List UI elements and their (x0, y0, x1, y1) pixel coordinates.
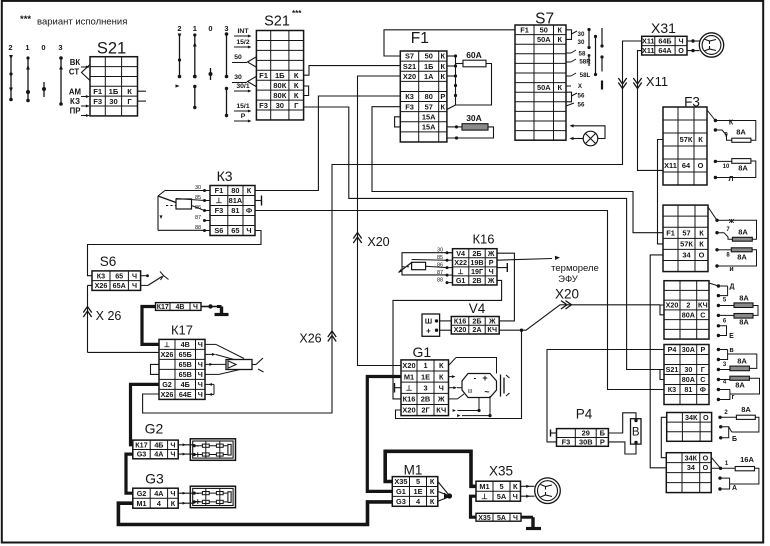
svg-text:К: К (699, 240, 704, 249)
relay K17 table (159, 339, 205, 399)
svg-text:Ч: Ч (170, 440, 175, 449)
position line B-3 (226, 33, 228, 77)
svg-text:К: К (171, 499, 176, 508)
lamp wires to S7 (571, 138, 583, 140)
svg-text:X11: X11 (646, 74, 668, 89)
svg-text:F1: F1 (666, 228, 675, 237)
svg-text:2: 2 (686, 301, 690, 310)
svg-text:4Б: 4Б (154, 440, 163, 449)
svg-text:S21: S21 (97, 39, 126, 57)
fuse 30A loop wire (447, 127, 494, 138)
F3 T3 left bracket rows 3-4 (660, 305, 664, 315)
svg-text:К: К (557, 35, 562, 44)
svg-text:G3: G3 (145, 471, 164, 487)
svg-text:ПР: ПР (70, 107, 81, 116)
svg-text:8А: 8А (735, 381, 745, 390)
svg-text:30А: 30А (466, 113, 482, 123)
svg-text:1Б: 1Б (424, 62, 434, 71)
S7 right terminal 30 30 (566, 30, 572, 40)
svg-text:F1: F1 (259, 71, 269, 80)
svg-text:81: 81 (684, 385, 692, 394)
fuse box F3 table T4 (664, 345, 709, 405)
svg-text:60А: 60А (466, 50, 482, 60)
F3 T1 fuse 10 8A (714, 160, 717, 163)
svg-text:К3: К3 (405, 92, 414, 101)
svg-text:X26: X26 (161, 390, 174, 399)
svg-text:О: О (698, 161, 704, 170)
svg-text:Ч: Ч (513, 515, 518, 522)
svg-text:М1: М1 (404, 372, 414, 381)
wire F1 57 to fusebox F3 (T2) (372, 107, 663, 233)
svg-text:Ч: Ч (170, 489, 175, 498)
svg-text:вариант исполнения: вариант исполнения (37, 17, 127, 28)
battery G3 wires (178, 492, 194, 494)
wire K3 65 to switch S6 (88, 231, 262, 276)
svg-text:К: К (294, 91, 299, 100)
svg-text:К: К (430, 487, 435, 496)
svg-text:G2: G2 (137, 489, 147, 498)
svg-text:INT: INT (238, 28, 250, 35)
svg-text:8А: 8А (738, 164, 748, 173)
wire 34 link T2 to T6 (650, 255, 666, 468)
fuse 60A (456, 63, 464, 65)
svg-text:⊥: ⊥ (406, 383, 412, 392)
svg-text:О: О (699, 251, 705, 260)
relay K16 table (453, 249, 498, 285)
svg-text:5А: 5А (497, 492, 507, 501)
svg-text:Ж: Ж (487, 276, 495, 285)
svg-text:X20: X20 (454, 325, 467, 334)
svg-text:и: и (729, 266, 733, 273)
svg-text:К16: К16 (403, 395, 416, 404)
svg-text:4В: 4В (181, 340, 190, 349)
svg-text:1Б: 1Б (109, 87, 119, 96)
svg-text:15А: 15А (422, 112, 436, 121)
svg-text:64: 64 (682, 161, 691, 170)
connector X20 chevron right (561, 301, 572, 309)
wire S21*** 1B to F1 (304, 66, 401, 76)
svg-text:К3: К3 (97, 271, 105, 280)
S21*** 50 chevron (248, 57, 257, 67)
svg-text:1: 1 (25, 43, 29, 52)
thick wire K17 G2 4B down to G2 (131, 384, 160, 444)
svg-text:Ж: Ж (487, 249, 495, 258)
svg-text:М1: М1 (404, 463, 423, 478)
thick wire ground lead to K17 (142, 307, 159, 345)
svg-text:16А: 16А (740, 455, 754, 464)
svg-text:F3: F3 (405, 102, 414, 111)
svg-text:57К: 57К (680, 240, 693, 249)
svg-text:30: 30 (109, 97, 117, 106)
svg-text:X35: X35 (478, 515, 491, 522)
svg-text:Р: Р (700, 345, 705, 354)
F3 T1 fuse 9 8A (714, 128, 717, 131)
svg-text:S7: S7 (405, 52, 414, 61)
svg-text:8А: 8А (736, 128, 746, 137)
switch S6 table (92, 271, 141, 291)
position line B-2 (179, 36, 181, 77)
S6 toggle contact (141, 275, 148, 277)
svg-text:F1: F1 (215, 186, 224, 195)
fuse box F1 table (400, 51, 447, 142)
svg-text:G1: G1 (413, 344, 432, 360)
svg-text:К: К (294, 71, 299, 80)
svg-text:30: 30 (276, 101, 284, 110)
svg-text:⊥: ⊥ (216, 196, 222, 205)
position line A-2 (10, 58, 12, 100)
svg-text:Г: Г (294, 101, 299, 110)
svg-text:К16: К16 (454, 316, 466, 325)
svg-text:X26: X26 (95, 281, 108, 290)
svg-text:Ч: Ч (198, 380, 203, 389)
svg-text:65А: 65А (113, 281, 126, 290)
svg-text:2Г: 2Г (421, 406, 430, 415)
svg-text:О: О (703, 463, 709, 472)
svg-text:⊥: ⊥ (481, 492, 487, 501)
svg-text:Ж: Ж (488, 316, 496, 325)
svg-text:ж: ж (728, 218, 735, 225)
svg-text:Р: Р (600, 438, 605, 447)
fuse 30A (447, 126, 462, 128)
svg-text:19Г: 19Г (471, 267, 483, 276)
wire X31 64B down through connector X11 (to K17 64E loop) (143, 41, 642, 413)
starter M1 table (392, 477, 438, 507)
svg-text:4В: 4В (176, 304, 185, 311)
svg-text:Ж: Ж (437, 395, 445, 404)
svg-text:термореле: термореле (551, 263, 599, 274)
svg-text:+: + (482, 373, 487, 383)
svg-text:4: 4 (157, 499, 161, 508)
svg-text:2В: 2В (421, 395, 430, 404)
svg-text:15/1: 15/1 (236, 103, 249, 110)
F3 T1 right cluster: terminal K (707, 110, 715, 121)
svg-text:Ч: Ч (198, 370, 203, 379)
svg-text:34К: 34К (685, 413, 698, 422)
glow plug box Sh + (422, 314, 440, 336)
ground symbol at X35 lead (521, 516, 533, 519)
svg-text:2Б: 2Б (472, 316, 481, 325)
svg-text:КЧ: КЧ (487, 325, 497, 334)
svg-text:Г: Г (701, 365, 705, 374)
svg-text:К3: К3 (217, 168, 233, 184)
svg-text:в: в (729, 347, 734, 354)
svg-text:X20: X20 (402, 361, 415, 370)
svg-text:О: О (678, 46, 684, 55)
svg-text:30А: 30А (682, 345, 695, 354)
svg-text:К: К (439, 361, 444, 370)
svg-text:Ч: Ч (198, 360, 203, 369)
svg-text:~: ~ (484, 387, 489, 397)
position line A-0 (43, 82, 45, 97)
position line B-0 (210, 68, 212, 80)
position line B-1 (194, 34, 196, 77)
svg-text:30: 30 (578, 31, 585, 38)
diode unit V4 table (451, 317, 499, 335)
svg-text:64Б: 64Б (658, 37, 671, 46)
svg-text:50А: 50А (537, 35, 551, 44)
position line A-3 (60, 57, 62, 105)
connector X35 table (476, 481, 521, 501)
svg-text:50: 50 (234, 54, 242, 61)
voltmeter B box (631, 419, 642, 444)
svg-text:X11: X11 (642, 46, 654, 55)
relay K16 coil and contact symbol (402, 253, 453, 275)
svg-text:5: 5 (499, 482, 503, 491)
svg-text:ш: ш (468, 389, 473, 395)
svg-text:Ч: Ч (132, 271, 137, 280)
svg-text:+: + (426, 327, 431, 336)
svg-text:S6: S6 (100, 254, 117, 269)
svg-text:⊥: ⊥ (164, 340, 170, 349)
wire F1 to S7 (50) (384, 30, 515, 56)
svg-text:1А: 1А (424, 72, 434, 81)
svg-text:1: 1 (423, 361, 427, 370)
svg-text:К: К (294, 81, 299, 90)
svg-text:56: 56 (578, 102, 585, 109)
svg-text:1Е: 1Е (421, 372, 430, 381)
svg-text:5: 5 (416, 477, 420, 486)
relay K3 coil and contact symbol (165, 190, 210, 192)
F1 right bus with junction dots (447, 55, 456, 57)
svg-text:G3: G3 (137, 450, 147, 459)
svg-text:F3: F3 (93, 97, 102, 106)
svg-text:2: 2 (177, 24, 181, 33)
connector X26 chevron on 64E wire (328, 331, 336, 342)
svg-text:15/2: 15/2 (236, 39, 249, 46)
svg-text:3: 3 (224, 24, 228, 33)
svg-text:57: 57 (425, 102, 433, 111)
wire X31 64A down through connector X11 to F3 (638, 51, 664, 171)
svg-text:-: - (474, 374, 477, 383)
svg-text:Ф: Ф (700, 385, 706, 394)
svg-text:К: К (513, 482, 518, 491)
svg-text:81: 81 (231, 206, 239, 215)
svg-text:Ч: Ч (679, 37, 684, 46)
svg-text:1Е: 1Е (413, 487, 422, 496)
svg-text:V4: V4 (469, 301, 486, 316)
F3 T2 fuse 8 8A (715, 248, 718, 251)
svg-text:С: С (700, 375, 705, 384)
svg-text:***: *** (20, 14, 31, 25)
svg-text:64А: 64А (658, 46, 671, 55)
svg-text:X35: X35 (394, 477, 407, 486)
svg-text:8А: 8А (741, 405, 751, 414)
svg-text:80К: 80К (273, 91, 286, 100)
F3 T3 right cluster: terminal D (709, 283, 718, 286)
svg-text:СТ: СТ (69, 68, 79, 77)
F1 left bracket rows 7-8 (395, 117, 401, 127)
svg-text:К: К (127, 87, 132, 96)
K17 right bracket rows 5-6 (205, 383, 214, 385)
G1 wires to generator (449, 358, 457, 366)
fuse box F3 table T5 (667, 413, 712, 442)
svg-text:К: К (441, 102, 446, 111)
svg-text:К17: К17 (157, 304, 169, 311)
svg-text:2Б: 2Б (472, 249, 481, 258)
fuse 60A loop wire (456, 64, 492, 106)
svg-text:X35: X35 (489, 464, 513, 479)
svg-text:X26: X26 (299, 332, 321, 346)
svg-text:Ч: Ч (132, 281, 137, 290)
wire K3 F (81) to fusebox F3 T4 (255, 211, 664, 390)
S21 CT chevron (82, 65, 91, 81)
connector X26 chevron (83, 307, 91, 318)
connector X20 chevron (353, 233, 361, 244)
svg-text:К: К (247, 186, 252, 195)
svg-text:Ч: Ч (439, 383, 444, 392)
svg-text:65В: 65В (179, 360, 192, 369)
svg-text:F1: F1 (411, 30, 429, 47)
svg-text:4А: 4А (154, 489, 163, 498)
svg-text:Р: Р (440, 92, 445, 101)
relay P4 table (557, 429, 609, 447)
svg-text:X20: X20 (403, 72, 416, 81)
F3 T4 right cluster: terminal v (717, 348, 720, 351)
wires X31 to horn with junction dots (687, 40, 700, 42)
K3 81A ground terminal (255, 200, 262, 202)
G1 ground terminal (395, 387, 402, 389)
svg-text:⊥: ⊥ (458, 267, 464, 276)
svg-text:30: 30 (578, 39, 585, 46)
connector X11 chevron on 64A wire (633, 78, 641, 89)
svg-text:А: А (732, 485, 737, 492)
svg-text:К: К (557, 25, 562, 34)
battery G3 symbol (190, 486, 235, 508)
svg-text:S21: S21 (264, 14, 290, 30)
svg-text:1Б: 1Б (275, 71, 285, 80)
svg-text:0: 0 (208, 24, 212, 33)
F3 T4 terminal g (730, 378, 760, 394)
F3 T6 terminal A bracket (720, 478, 730, 484)
svg-text:КЧ: КЧ (436, 406, 446, 415)
battery G3 table (133, 488, 178, 508)
svg-text:X11: X11 (642, 37, 654, 46)
wire K16 2V to G1 (393, 280, 502, 399)
svg-text:X26: X26 (161, 350, 174, 359)
svg-text:50А: 50А (537, 83, 551, 92)
svg-text:8А: 8А (737, 253, 747, 262)
svg-text:В: В (632, 427, 640, 439)
svg-text:Ф: Ф (246, 206, 253, 215)
svg-text:Ч: Ч (246, 226, 251, 235)
K16 19G ground terminal (497, 267, 507, 269)
switch S21*** contact table (256, 31, 303, 120)
connector X31 table (642, 36, 687, 55)
svg-text:0: 0 (41, 43, 45, 52)
position line A-1 (27, 57, 29, 101)
svg-text:80: 80 (425, 92, 433, 101)
svg-text:34: 34 (687, 463, 695, 472)
svg-text:ВК: ВК (70, 58, 81, 67)
glow plug unit symbol at K17 (226, 360, 252, 370)
svg-text:г: г (732, 394, 735, 401)
thick cable M1 to X35 (385, 451, 476, 486)
svg-text:G2: G2 (162, 380, 172, 389)
S21 right ticks (138, 90, 147, 92)
S7 right terminal 56 56 (566, 92, 572, 102)
svg-text:К: К (699, 228, 704, 237)
svg-text:S6: S6 (214, 226, 223, 235)
svg-text:Р: Р (241, 113, 246, 120)
svg-text:V4: V4 (456, 249, 465, 258)
svg-text:30В: 30В (579, 438, 593, 447)
svg-text:К17: К17 (171, 323, 193, 338)
wire F1 80 to relay K3 (255, 96, 400, 191)
svg-text:2В: 2В (472, 276, 481, 285)
svg-text:О: О (703, 413, 709, 422)
svg-text:58L: 58L (580, 72, 591, 79)
F3 link bracket T5-T6 (34K) (661, 417, 666, 457)
svg-text:Ч: Ч (198, 340, 203, 349)
svg-text:Б: Б (732, 436, 737, 443)
X35 wires to device (521, 485, 535, 487)
svg-text:2: 2 (8, 43, 12, 52)
F3 T4 left bracket rows 3-4 (660, 370, 664, 380)
svg-text:G1: G1 (456, 276, 466, 285)
svg-text:S21: S21 (403, 62, 416, 71)
F3 T3 fuse 5 8A (718, 286, 727, 296)
svg-text:К: К (441, 72, 446, 81)
svg-text:К: К (557, 83, 562, 92)
svg-text:8А: 8А (739, 318, 749, 327)
svg-text:4Б: 4Б (181, 380, 190, 389)
fuse box F3 table T2 (663, 205, 708, 271)
svg-text:4А: 4А (154, 450, 163, 459)
svg-text:К: К (430, 497, 435, 506)
svg-text:К: К (430, 477, 435, 486)
K17 left bracket rows 3-4 (151, 364, 160, 374)
svg-text:30: 30 (684, 365, 692, 374)
P4 wires to voltmeter (608, 413, 636, 433)
svg-text:80: 80 (231, 186, 239, 195)
svg-text:КЧ: КЧ (698, 301, 708, 310)
svg-text:Д: Д (730, 284, 735, 291)
F3 T3 terminal E bracket (717, 324, 720, 327)
svg-text:50: 50 (540, 25, 548, 34)
svg-text:G3: G3 (396, 497, 406, 506)
svg-text:Р: Р (489, 258, 494, 267)
wire S21*** G to fusebox F3 (T4) (304, 107, 660, 370)
svg-text:S21: S21 (666, 365, 679, 374)
svg-text:G1: G1 (396, 487, 406, 496)
X35 device symbol (circle) (535, 478, 561, 504)
svg-text:1: 1 (193, 24, 197, 33)
F3 T5 right cluster: fuse 2 8A (718, 416, 721, 419)
svg-text:+: + (195, 497, 200, 507)
F3 T2 right cluster: terminal Zh (708, 207, 717, 220)
svg-text:К: К (698, 135, 703, 144)
svg-text:56: 56 (578, 93, 585, 100)
ground lead table X35 5A (476, 513, 521, 521)
svg-text:Р4: Р4 (668, 345, 677, 354)
svg-text:3: 3 (58, 43, 62, 52)
F3 T3 fuse 6 8A (753, 306, 758, 316)
thick ground bus G3 to M1 (118, 502, 392, 525)
svg-text:5А: 5А (497, 515, 506, 522)
svg-text:К: К (441, 52, 446, 61)
switch S21 contact table (90, 57, 138, 116)
S21*** 30 chevron (248, 77, 257, 87)
svg-text:X20: X20 (367, 235, 389, 249)
svg-text:X 26: X 26 (96, 309, 122, 323)
fuse box F3 table T6 (666, 453, 711, 493)
svg-text:К3: К3 (668, 385, 676, 394)
svg-text:+: + (195, 449, 200, 459)
svg-text:81А: 81А (229, 196, 243, 205)
svg-text:F1: F1 (520, 25, 529, 34)
svg-text:10: 10 (723, 164, 730, 170)
svg-text:88: 88 (437, 278, 443, 284)
